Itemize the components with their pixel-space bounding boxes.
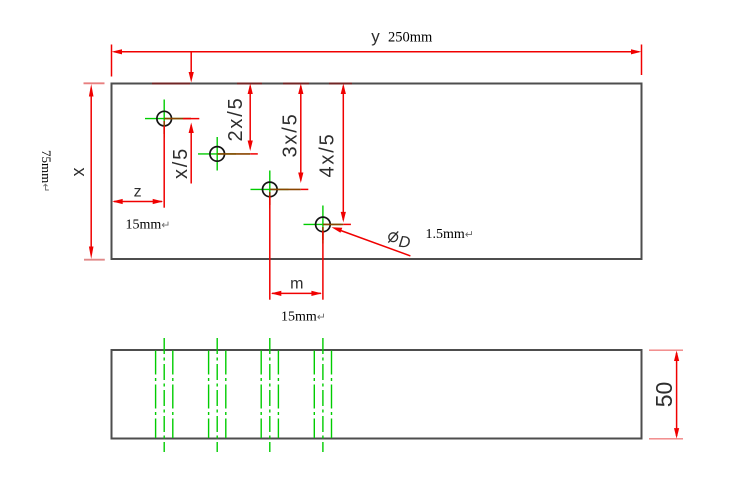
leader for hole diameter [332, 227, 411, 256]
hole 1 centerline cross [145, 100, 183, 138]
side view centerlines hole 2 [209, 338, 226, 452]
brown extension line from hole 4 [323, 224, 343, 240]
svg-text:4x/5: 4x/5 [317, 132, 339, 177]
red overlap ticks on top edge [152, 83, 352, 85]
dimension x tick bottom [84, 259, 105, 261]
svg-text:2x/5: 2x/5 [225, 96, 247, 141]
hole 2 circle [210, 147, 225, 162]
svg-text:m: m [290, 275, 303, 292]
svg-text:1.5mm↵: 1.5mm↵ [426, 227, 475, 242]
dimension y line [112, 49, 642, 54]
dimension m line [271, 291, 322, 296]
hole 2 centerline cross [198, 137, 236, 171]
hole 3 circle [263, 182, 278, 197]
dimension x/5 line [183, 119, 199, 184]
dimension m extension line left (from hole 3 down) [269, 196, 271, 300]
dimension z line [112, 199, 163, 204]
svg-text:15mm↵: 15mm↵ [126, 217, 171, 232]
plate outline (top view) [112, 84, 642, 260]
brown extension line from hole 1 [164, 119, 191, 134]
side view centerlines hole 4 [314, 338, 331, 452]
hole 4 circle [316, 217, 331, 232]
dimension y leader arrow to top edge [189, 53, 194, 83]
brown extension line from hole 2 [217, 153, 250, 155]
dimension z extension line (from hole 1 down) [163, 126, 165, 208]
side view centerlines hole 3 [261, 338, 278, 452]
svg-text:3x/5: 3x/5 [280, 112, 302, 157]
side view centerlines hole 1 [156, 338, 173, 452]
dimension 3x/5 line [298, 84, 308, 190]
svg-text:x: x [68, 168, 88, 177]
svg-text:D: D [398, 234, 412, 252]
hole 4 centerline cross [304, 206, 342, 244]
svg-text:50: 50 [651, 382, 677, 408]
hole 1 circle [157, 111, 172, 126]
dimension 50 line [674, 351, 679, 439]
svg-text:x/5: x/5 [170, 147, 192, 179]
dimension 4x/5 line [341, 84, 351, 225]
svg-text:y: y [371, 27, 380, 46]
svg-text:250mm: 250mm [388, 30, 433, 46]
label oD diameter symbol [388, 231, 398, 242]
dimension 50 tick top [649, 349, 683, 351]
plate outline (side view) [112, 350, 642, 439]
svg-text:z: z [134, 184, 142, 201]
dimension x tick top [84, 82, 105, 84]
dimension y extension line right [641, 45, 643, 76]
brown extension line from hole 3 [270, 189, 301, 205]
dimension x line [89, 84, 94, 259]
dimension 2x/5 line [248, 84, 258, 154]
svg-text:75mm↵: 75mm↵ [39, 150, 54, 192]
dimension m extension line right (from hole 4 down) [322, 231, 324, 300]
dimension y extension line left [111, 45, 113, 77]
hole 3 centerline cross [251, 171, 289, 209]
dimension 50 tick bottom [649, 438, 683, 440]
svg-text:15mm↵: 15mm↵ [281, 309, 326, 324]
